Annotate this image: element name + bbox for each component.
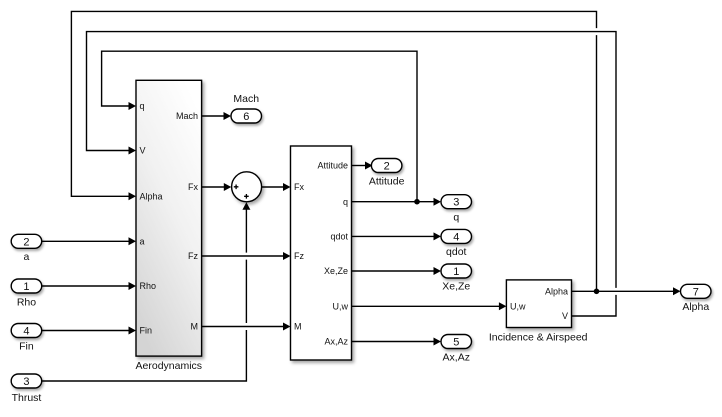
- svg-text:Ax,Az: Ax,Az: [324, 337, 348, 347]
- svg-text:7: 7: [693, 286, 699, 298]
- svg-text:U,w: U,w: [510, 301, 526, 311]
- wire: Ax,Az output to outport 5: [352, 338, 441, 346]
- wire: Alpha output to outport 7: [572, 287, 681, 295]
- svg-text:5: 5: [453, 337, 459, 349]
- svg-text:Thrust: Thrust: [12, 392, 42, 404]
- svg-text:Alpha: Alpha: [545, 287, 568, 297]
- svg-text:Xe,Ze: Xe,Ze: [324, 266, 348, 276]
- wire: inport 2 to a input: [42, 237, 136, 245]
- wire: V feedback loop to Aerodynamics V input: [87, 32, 617, 316]
- svg-text:Attitude: Attitude: [317, 161, 348, 171]
- outport 5 Ax,Az: [441, 335, 472, 364]
- svg-text:q: q: [453, 212, 459, 224]
- svg-text:Rho: Rho: [17, 297, 36, 309]
- wire: Xe,Ze output to outport 1: [352, 267, 441, 275]
- svg-text:2: 2: [23, 236, 29, 248]
- svg-text:3: 3: [23, 376, 29, 388]
- svg-text:Fz: Fz: [294, 251, 304, 261]
- svg-text:Alpha: Alpha: [682, 301, 709, 313]
- svg-text:U,w: U,w: [333, 302, 349, 312]
- outport 1 Xe,Ze: [441, 264, 472, 293]
- outport 4 qdot: [441, 229, 472, 258]
- inport 2 a: [11, 234, 42, 263]
- svg-text:Fx: Fx: [294, 182, 304, 192]
- svg-text:V: V: [140, 146, 146, 156]
- svg-text:a: a: [140, 237, 145, 247]
- svg-text:4: 4: [453, 231, 459, 243]
- svg-text:4: 4: [23, 326, 29, 338]
- svg-text:1: 1: [453, 266, 459, 278]
- svg-text:Fin: Fin: [140, 326, 153, 336]
- svg-text:Aerodynamics: Aerodynamics: [136, 360, 203, 372]
- block Equations of Motion: [291, 146, 352, 360]
- wire: inport 3 Thrust to sum block bottom: [42, 202, 251, 381]
- svg-text:Fin: Fin: [19, 341, 34, 353]
- wire: Fx output to sum block: [202, 183, 232, 191]
- outport 2 Attitude: [369, 159, 405, 188]
- outport 6 Mach: [231, 93, 262, 123]
- svg-text:6: 6: [243, 111, 249, 123]
- svg-text:a: a: [24, 251, 30, 263]
- junction node on q wire: [414, 199, 420, 205]
- sum block: [232, 172, 262, 202]
- svg-text:Ax,Az: Ax,Az: [443, 351, 470, 363]
- block Aerodynamics: [136, 80, 203, 372]
- svg-text:qdot: qdot: [446, 246, 467, 258]
- wire: Alpha feedback loop to Aerodynamics Alpha input: [71, 11, 596, 291]
- svg-text:M: M: [191, 322, 199, 332]
- wire: inport 1 to Rho input: [42, 282, 136, 290]
- wire: q output to outport 3: [352, 198, 441, 206]
- wire: q feedback loop to Aerodynamics q input: [102, 51, 417, 202]
- wire: M output to M input: [202, 323, 291, 331]
- svg-text:M: M: [294, 322, 302, 332]
- svg-text:Attitude: Attitude: [369, 176, 405, 188]
- svg-text:Mach: Mach: [233, 93, 259, 105]
- svg-text:Xe,Ze: Xe,Ze: [442, 281, 470, 293]
- wire: Mach output to outport 6: [202, 112, 231, 120]
- inport 1 Rho: [11, 279, 42, 309]
- outport 7 Alpha: [681, 284, 712, 313]
- svg-text:q: q: [343, 197, 348, 207]
- inport 4 Fin: [11, 324, 42, 353]
- svg-text:Incidence & Airspeed: Incidence & Airspeed: [489, 331, 588, 343]
- svg-text:2: 2: [384, 161, 390, 173]
- wire: U,w output to Incidence block input: [352, 302, 506, 310]
- svg-text:Mach: Mach: [176, 111, 198, 121]
- svg-text:1: 1: [23, 281, 29, 293]
- svg-text:Rho: Rho: [140, 281, 157, 291]
- svg-text:3: 3: [453, 197, 459, 209]
- svg-text:Alpha: Alpha: [140, 192, 163, 202]
- svg-text:q: q: [140, 101, 145, 111]
- wire: qdot output to outport 4: [352, 232, 441, 240]
- junction node on Alpha wire: [594, 289, 600, 295]
- svg-text:Fx: Fx: [188, 182, 198, 192]
- wire: sum output to Fx input: [262, 183, 291, 191]
- wire: inport 4 to Fin input: [42, 327, 136, 335]
- svg-text:Fz: Fz: [188, 251, 198, 261]
- svg-text:V: V: [562, 311, 568, 321]
- outport 3 q: [441, 195, 472, 224]
- svg-text:qdot: qdot: [330, 232, 348, 242]
- block Incidence & Airspeed: [489, 280, 588, 343]
- inport 3 Thrust: [11, 374, 42, 404]
- wire: Attitude output to outport 2: [352, 162, 373, 170]
- wire: Fz output to Fz input: [202, 252, 291, 260]
